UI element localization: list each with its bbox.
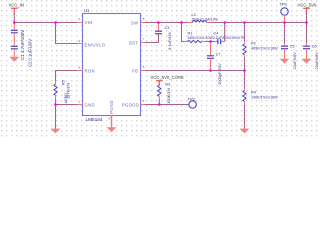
svg-text:100K/1%: 100K/1% bbox=[166, 87, 171, 104]
wire C4 up to rail bbox=[221, 41, 225, 43]
inductor L2 bbox=[187, 22, 193, 24]
capacitor C3 BST branch bbox=[158, 23, 160, 32]
ground below R4 bbox=[244, 105, 246, 130]
svg-text:GND: GND bbox=[85, 103, 95, 108]
wire SW rail bbox=[145, 22, 187, 24]
wire GND pin bbox=[56, 104, 78, 106]
svg-text:R2: R2 bbox=[251, 41, 256, 45]
capacitor C4 bbox=[218, 39, 221, 44]
capacitor C1 bbox=[11, 30, 18, 33]
resistor R1 ripple branch bbox=[182, 23, 185, 42]
svg-text:140K/1%/1/16W: 140K/1%/1/16W bbox=[251, 95, 278, 99]
svg-text:VCC_IN: VCC_IN bbox=[9, 3, 25, 8]
pin 7 BST bbox=[141, 42, 146, 44]
wire VCC_5V0 down bbox=[306, 13, 308, 23]
svg-text:R1: R1 bbox=[188, 31, 193, 35]
power flag VCC_5V0 bbox=[303, 8, 310, 14]
svg-text:AGND: AGND bbox=[64, 93, 68, 104]
svg-text:C6: C6 bbox=[312, 44, 317, 48]
svg-text:493K/1%/1/16W: 493K/1%/1/16W bbox=[251, 46, 278, 50]
IC U1 body bbox=[83, 14, 141, 116]
power flag VCC_IN bbox=[11, 8, 18, 14]
svg-text:U1: U1 bbox=[84, 8, 90, 13]
ground below C6 bbox=[302, 59, 312, 64]
ground below C2 bbox=[13, 49, 15, 57]
svg-text:R3: R3 bbox=[165, 82, 170, 86]
svg-text:22uF/16V: 22uF/16V bbox=[292, 52, 297, 70]
svg-text:FB: FB bbox=[132, 69, 138, 74]
svg-text:PGOOD: PGOOD bbox=[122, 103, 139, 108]
svg-text:C5: C5 bbox=[290, 44, 295, 48]
svg-text:VCC_5V0_CORE: VCC_5V0_CORE bbox=[151, 75, 185, 80]
wire VCC_IN rail to VIN bbox=[14, 22, 77, 24]
svg-text:VIN: VIN bbox=[85, 20, 93, 25]
svg-text:340K/1%/1/10W: 340K/1%/1/10W bbox=[188, 36, 214, 40]
svg-text:RON: RON bbox=[85, 69, 95, 74]
svg-text:VCC_5V0: VCC_5V0 bbox=[298, 3, 318, 8]
svg-text:EN/UVLO: EN/UVLO bbox=[85, 43, 106, 48]
svg-text:LM5164: LM5164 bbox=[86, 117, 103, 122]
wire EN branch bbox=[56, 23, 78, 44]
pin 1 GND bbox=[77, 104, 83, 106]
resistor R4 divider bottom bbox=[244, 71, 246, 88]
svg-text:2.2uF/50V/10%/X7R: 2.2uF/50V/10%/X7R bbox=[213, 36, 245, 40]
wire FB bbox=[145, 70, 245, 72]
resistor R3 pull-up bbox=[158, 85, 161, 96]
pin 5 FB bbox=[141, 70, 146, 72]
capacitor C2 bbox=[11, 46, 18, 49]
wire PGOOD bbox=[145, 104, 189, 106]
power flag VCC_5V0_CORE bbox=[156, 81, 163, 86]
svg-text:SW: SW bbox=[131, 21, 138, 26]
svg-text:22uF/16V: 22uF/16V bbox=[314, 52, 319, 70]
svg-text:C3: C3 bbox=[165, 26, 170, 30]
svg-text:BST: BST bbox=[129, 41, 138, 46]
svg-text:TP9: TP9 bbox=[279, 2, 287, 7]
pin 6 PGOOD bbox=[141, 104, 146, 106]
pin 4 RON bbox=[77, 70, 83, 72]
ground below GND bbox=[55, 105, 57, 130]
pin 3 EN/UVLO bbox=[77, 43, 83, 45]
svg-text:C4: C4 bbox=[214, 31, 219, 35]
wire between caps bbox=[13, 33, 15, 47]
resistor R2 divider top bbox=[244, 23, 246, 42]
capacitor C6 output bbox=[306, 23, 308, 44]
svg-text:39UH/1.5A/10%: 39UH/1.5A/10% bbox=[192, 18, 219, 22]
svg-text:L2: L2 bbox=[192, 13, 196, 17]
ground below C5 bbox=[280, 59, 290, 64]
capacitor C5 output bbox=[284, 23, 286, 44]
ground PGND bbox=[107, 127, 117, 132]
pin 9 PGND bbox=[111, 116, 113, 128]
pin 8 SW bbox=[141, 22, 146, 24]
wire VOUT rail bbox=[211, 22, 307, 24]
svg-text:1000pF/50V: 1000pF/50V bbox=[217, 63, 222, 85]
lead to capacitor C1 bbox=[13, 23, 15, 31]
svg-text:C1 4.7uF/100V: C1 4.7uF/100V bbox=[20, 30, 25, 60]
wire R1 to C4 bbox=[202, 41, 208, 43]
wire VCC_IN down bbox=[13, 13, 15, 23]
svg-text:C2 0.1uF/100V: C2 0.1uF/100V bbox=[28, 39, 33, 67]
svg-text:R4: R4 bbox=[251, 90, 256, 94]
pin 2 VIN bbox=[77, 22, 83, 24]
capacitor C7 branch to FB bbox=[210, 42, 212, 56]
svg-text:C7: C7 bbox=[216, 52, 221, 56]
svg-text:0.1uF/16V: 0.1uF/16V bbox=[167, 31, 172, 50]
resistor R5 on RON bbox=[56, 71, 78, 82]
svg-text:PGND: PGND bbox=[109, 100, 114, 114]
